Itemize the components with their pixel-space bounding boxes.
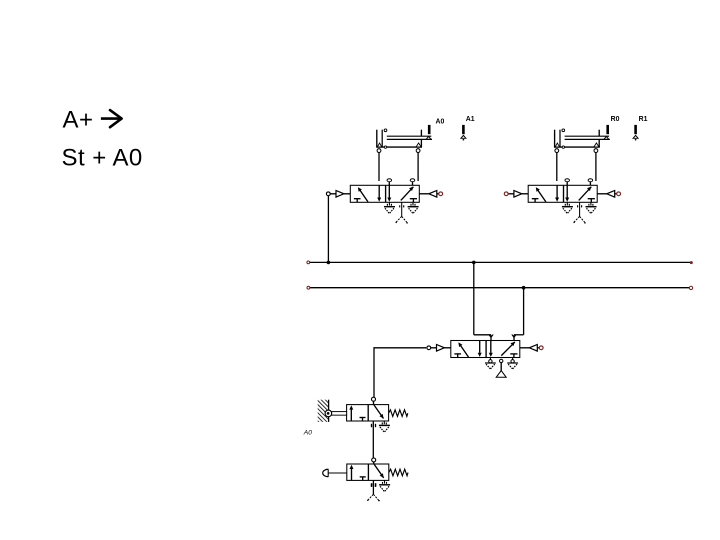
- cylinder R: left cushion triangle: [555, 143, 559, 147]
- cylinder A: cushion marker ring: [384, 146, 386, 148]
- valve A0 (roller limit valve): blocked supply port marks: [372, 424, 376, 427]
- valve St (push button start valve): top port 2 connector: [372, 458, 376, 464]
- valve V1: right position flow path (vertical pass, arrow down): [387, 185, 391, 201]
- valve V2: exhaust port 3 silencer: [586, 202, 597, 213]
- valve V2: top port 4 connector circle: [565, 179, 570, 186]
- valve V2: exhaust port 5 silencer: [562, 202, 573, 213]
- wire: bus 2 down to V3: [523, 288, 525, 335]
- valve V2: 5/2-way valve body: [528, 185, 597, 202]
- start valve St: supply port line w/ blocked marks: [371, 480, 375, 494]
- wire: bus 1 down to V3 (crosses bus 2): [473, 262, 475, 334]
- valve V3: left position diagonal flow arrow: [458, 342, 468, 357]
- valve V1: 5/2-way valve body: [350, 185, 419, 202]
- limit switch flag A0 flag (at rod tip): [428, 125, 431, 134]
- valve St (push button start valve): exhaust port 3 silencer: [379, 480, 390, 491]
- text: arrow glyph: [101, 110, 122, 127]
- cylinder A: right bottom port connector: [416, 149, 420, 153]
- roller valve A0: roller: [325, 410, 332, 417]
- junction: V1 pilot wire on bus 1: [327, 261, 331, 265]
- valve A0 (roller limit valve): left position flow path (arrow up): [349, 405, 353, 421]
- valve V1: top port 2 connector circle: [410, 179, 415, 186]
- cylinder R: left bottom port connector: [555, 149, 559, 153]
- valve V2: left position diagonal flow arrow: [536, 187, 546, 202]
- svg-text:St + A0: St + A0: [62, 145, 143, 172]
- valve V2: left position flow path (vertical pass, arrow down): [555, 185, 559, 201]
- wire: cylinder A right port down to valve: [417, 153, 419, 182]
- valve V3: right position flow path (vertical pass, arrow down): [489, 341, 493, 357]
- valve V2: right pilot port connector (open): [617, 192, 621, 196]
- valve V3: exhaust port 5 silencer: [485, 358, 496, 369]
- cylinder A: left bottom port connector: [377, 149, 381, 153]
- svg-text:A0: A0: [436, 119, 445, 126]
- wire: bus line 2: [308, 287, 691, 289]
- valve V1: right position blocked port T: [410, 199, 417, 203]
- valve V3: left position blocked port T: [454, 354, 461, 358]
- valve V1: left position diagonal flow arrow: [358, 187, 368, 202]
- svg-text:R1: R1: [639, 116, 648, 123]
- cylinder A: left cushion triangle: [377, 143, 381, 147]
- svg-text:R0: R0: [611, 116, 620, 123]
- valve St (push button start valve): blocked supply port marks: [372, 483, 376, 486]
- valve V1: right position diagonal flow arrow: [401, 187, 414, 201]
- valve A0 (roller limit valve): left position blocked port T: [360, 418, 366, 422]
- valve St (push button start valve): return spring: [389, 469, 408, 476]
- wire: jog over to V3 port 2: [474, 334, 491, 336]
- valve V3: right pilot port connector (open): [539, 346, 543, 350]
- valve V1: pressure port 1 supply mark: [395, 202, 407, 223]
- valve V3: pressure port 1 air supply: [496, 359, 506, 377]
- wire: cylinder R right port down to valve: [595, 153, 597, 182]
- svg-text:A0: A0: [303, 429, 312, 436]
- wire: down to roller valve A0: [373, 347, 375, 397]
- valve St (push button start valve): right position diagonal flow arrow: [374, 464, 384, 478]
- wire: V1 left pilot to bus line 1: [327, 196, 329, 263]
- cylinder R: piston: [559, 130, 561, 148]
- valve V1: exhaust port 5 silencer: [384, 202, 395, 213]
- junction: bus 2 to valve V3: [522, 286, 526, 290]
- limit switch flag R1 flag: [633, 125, 638, 141]
- valve St (push button start valve): left position flow path (arrow up): [350, 465, 354, 481]
- valve V3: left pneumatic pilot actuator: [431, 345, 451, 352]
- wire: cylinder R left port down to valve: [556, 153, 558, 182]
- cylinder R: piston rod: [565, 136, 610, 139]
- wire: cylinder A left port down to valve: [378, 153, 380, 182]
- valve V2: right position blocked port T: [588, 199, 595, 203]
- valve V3: left position flow path (vertical pass, arrow down): [478, 341, 482, 357]
- valve V2: right pneumatic pilot actuator: [597, 191, 617, 198]
- junction: bus 1 to valve V3: [472, 261, 476, 265]
- valve V1: right pneumatic pilot actuator: [419, 191, 439, 198]
- node: bus 2 right open end: [689, 286, 692, 289]
- valve V2: left pneumatic pilot actuator: [508, 191, 528, 198]
- cylinder R: cushion marker ring: [562, 146, 564, 148]
- valve A0 (roller limit valve): right position diagonal flow arrow: [374, 405, 384, 419]
- valve V1: left pilot port connector: [326, 192, 330, 196]
- cylinder A: barrel: [376, 130, 422, 148]
- valve V3: 5/2-way valve body: [451, 341, 520, 358]
- valve V1: top port 4 connector circle: [387, 179, 392, 186]
- svg-text:A+: A+: [63, 107, 94, 134]
- valve V1: left position blocked port T: [354, 199, 361, 203]
- valve V2: top port 2 connector circle: [588, 179, 593, 186]
- valve V1: left position flow path (vertical pass, arrow down): [377, 185, 381, 201]
- cylinder R: rod end position marker triangle: [604, 136, 609, 139]
- valve V2: right position diagonal flow arrow: [579, 187, 592, 201]
- roller valve A0: cam wall hatch: [318, 400, 329, 422]
- valve V1: left pneumatic pilot actuator: [330, 191, 350, 198]
- valve V3: right pneumatic pilot actuator: [520, 345, 540, 352]
- wire: V3 port 2 stem: [489, 334, 493, 340]
- node: bus 1 right end: [690, 261, 693, 264]
- valve V2: right position flow path (vertical pass, arrow down): [565, 185, 569, 201]
- wire: bus line 1 (pressure manifold): [308, 261, 691, 263]
- node: bus 1 left open end: [307, 261, 310, 264]
- wire: roller valve bottom to start valve: [372, 421, 374, 458]
- start valve St: air supply Y-legs: [367, 494, 380, 501]
- valve V2: pressure port 1 supply mark: [573, 202, 585, 223]
- limit switch flag R0 flag (at rod tip): [606, 125, 609, 134]
- svg-text:A1: A1: [466, 116, 475, 123]
- valve V1: exhaust port 3 silencer: [408, 202, 419, 213]
- limit switch flag A1 flag: [461, 125, 466, 141]
- valve V1: right pilot port connector (open): [439, 192, 443, 196]
- cylinder A: rear port connector circle: [384, 129, 387, 132]
- start valve St: push button cap: [323, 469, 335, 478]
- cylinder A: piston rod: [387, 136, 432, 139]
- valve V2: left pilot port connector: [504, 192, 508, 196]
- valve A0 (roller limit valve): return spring: [389, 410, 408, 417]
- valve V2: left position blocked port T: [532, 199, 539, 203]
- wire: V3 left pilot horizontal run: [374, 347, 427, 349]
- cylinder R: right cushion triangle: [594, 143, 599, 147]
- valve V3: exhaust port 3 silencer: [507, 358, 518, 369]
- roller valve A0: plunger: [332, 412, 347, 416]
- wire: jog over to V3 port 4: [514, 334, 524, 336]
- node: bus 2 left open end: [307, 286, 310, 289]
- cylinder A: piston: [381, 130, 383, 148]
- valve A0 (roller limit valve): top port 2 connector: [372, 397, 376, 404]
- cylinder R: right bottom port connector: [594, 149, 598, 153]
- valve St (push button start valve): left position blocked port T: [360, 477, 366, 481]
- cylinder A: rod end position marker triangle: [426, 136, 431, 139]
- wire: V3 port 4 stem: [512, 334, 516, 340]
- valve V3: right position diagonal flow arrow: [501, 342, 515, 356]
- cylinder R: barrel: [554, 130, 600, 148]
- valve A0 (roller limit valve): 3/2-way valve body: [347, 405, 389, 421]
- valve V3: left pilot port connector: [427, 346, 431, 350]
- valve V3: right position blocked port T: [510, 354, 517, 358]
- cylinder A: right cushion triangle: [416, 143, 421, 147]
- valve A0 (roller limit valve): exhaust port 3 silencer: [379, 421, 390, 432]
- valve St (push button start valve): 3/2-way valve body: [347, 464, 389, 480]
- start valve St: push rod: [328, 472, 347, 474]
- cylinder R: rear port connector circle: [562, 129, 565, 132]
